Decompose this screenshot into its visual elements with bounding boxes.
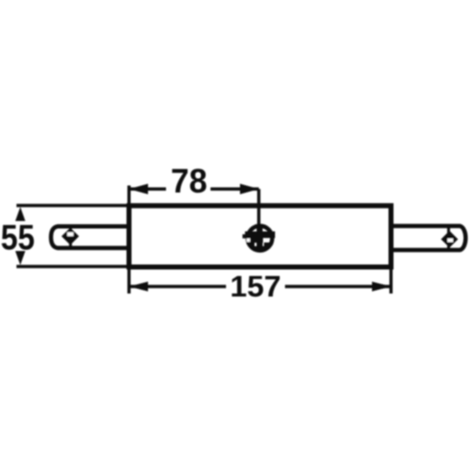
dimension 157: value label [230,270,281,303]
left tab outline [51,226,129,248]
dimension 78: left arrowhead [129,184,148,194]
center hole (knurled screw symbol) [243,225,276,253]
svg-text:78: 78 [171,162,208,200]
dimension 157: left extension line [127,267,130,294]
right tab hole centerline [447,226,450,250]
dimension 78: right arrowhead [240,184,259,194]
dimension 157: right extension line [389,267,392,294]
dimension 55: down arrowhead with tail [15,251,25,265]
left tab hole [62,228,80,245]
dimension 157: right arrowhead [372,282,391,292]
dimension 157: left arrowhead [129,282,148,292]
dimension 55: top extension line [17,204,130,207]
dimension 78: dimension line [129,187,259,190]
dimension 157: dimension line [129,285,391,288]
left tab hole centerline [69,226,72,248]
svg-text:157: 157 [230,270,281,303]
dimension 55: up arrowhead with tail [15,207,25,221]
dimension 78: extension line down to center hole [257,189,260,227]
main body rectangle [129,206,391,267]
right tab hole [441,231,458,248]
svg-text:55: 55 [1,219,35,258]
dimension 78: value label [171,162,208,200]
dimension 78: extension line at body left edge [127,186,130,206]
dimension 55: bottom extension line [17,265,130,268]
dimension 55: value label [1,219,35,258]
right tab outline [391,226,466,250]
